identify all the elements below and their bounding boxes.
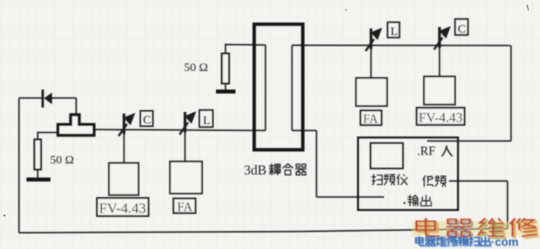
wire: 50ohm left resistor link to tee <box>38 133 57 140</box>
wire: coupler inner-left line <box>265 45 267 131</box>
tee junction (coax tee) <box>58 115 94 136</box>
svg-text:50 Ω: 50 Ω <box>50 153 74 167</box>
wire: sweep output wire <box>317 196 385 198</box>
wire: coupler top-left port to 50ohm <box>226 45 266 54</box>
label box C (right) <box>455 19 468 35</box>
label box FV-4.43 (right) <box>417 108 465 125</box>
label 3dB coupler <box>244 163 306 178</box>
scan speck (top right) <box>527 5 529 11</box>
svg-text:FV-4.43: FV-4.43 <box>99 201 146 217</box>
wire: left vertical bus <box>18 98 20 233</box>
detector box (left FV-4.43) <box>109 163 139 195</box>
label box FA (left) <box>174 199 196 215</box>
resistor 50ohm (top) <box>222 54 229 84</box>
wire: RF input wire <box>427 140 511 142</box>
svg-text:.RF: .RF <box>417 144 435 158</box>
svg-text:50 Ω: 50 Ω <box>184 60 208 74</box>
label box C (left) <box>140 111 153 127</box>
watermark blue url row <box>417 237 491 246</box>
wire: top-left horizontal with diode <box>19 97 42 99</box>
label box L (right) <box>388 22 400 38</box>
svg-text:C: C <box>458 21 466 35</box>
watermark <box>412 219 539 249</box>
scan speck (top middle) <box>345 9 347 11</box>
wire: top 50ohm resistor to ground <box>225 84 227 91</box>
wire: low-frequency output wire <box>449 180 508 182</box>
sweep generator screen <box>371 143 404 169</box>
label low frequency (dipin) <box>423 176 446 187</box>
label RF in <box>417 144 452 158</box>
wire: drop to sweep output <box>316 131 318 198</box>
probe L (right): arrow detector <box>366 28 383 51</box>
wire: coupler bottom-right port <box>292 130 317 132</box>
svg-text:L: L <box>203 113 210 127</box>
svg-text:·com: ·com <box>491 237 518 249</box>
svg-text:FA: FA <box>363 112 378 126</box>
wire: coupler inner-right line <box>291 45 293 130</box>
probe L (left): arrow detector <box>180 111 197 134</box>
label box FV-4.43 (left) <box>97 198 149 217</box>
3dB coupler body <box>254 24 303 150</box>
svg-text:3dB: 3dB <box>244 163 267 178</box>
wire: probe C right stem to detector <box>439 46 441 78</box>
detector box (left FA) <box>170 162 202 194</box>
detector box (right FA) <box>356 78 387 106</box>
resistor 50ohm (left) <box>34 140 41 170</box>
scan speck (bottom left) <box>4 215 6 217</box>
ground (top middle) <box>216 90 236 94</box>
svg-text:FV-4.43: FV-4.43 <box>419 110 463 125</box>
label box FA (right) <box>361 111 382 127</box>
wire: probe C left stem to detector <box>123 130 125 164</box>
label sweep meter (saopinyi) <box>372 174 407 185</box>
svg-text:FA: FA <box>177 199 193 214</box>
probe C (left): arrow detector <box>119 113 136 136</box>
label output (shuchu) <box>404 195 432 206</box>
wire: probe L left stem to detector <box>184 130 186 162</box>
wire: 50ohm left resistor to ground <box>37 170 39 179</box>
sweep generator box <box>358 138 458 211</box>
diode on top-left wire <box>43 90 52 108</box>
wire: low-frequency drop to bottom bus <box>507 181 509 229</box>
wire: bottom bus <box>19 229 508 233</box>
wire: probe L right stem to detector <box>370 46 372 79</box>
svg-text:L: L <box>391 24 398 38</box>
wire: top-right bus <box>292 44 511 46</box>
wire: main left chain (tee to coupler) <box>95 130 266 131</box>
wire: right vertical drop to RF <box>510 46 512 142</box>
label box L (left) <box>199 110 213 127</box>
ground (left) <box>27 178 51 182</box>
detector box (right FV-4.43) <box>424 77 455 105</box>
wire: drop to tee stub <box>75 98 77 115</box>
probe C (right): arrow detector <box>434 26 451 49</box>
svg-text:C: C <box>143 113 151 127</box>
